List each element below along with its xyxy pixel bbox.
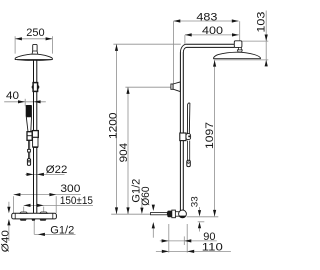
svg-text:103: 103 [256,12,268,33]
svg-text:Ø22: Ø22 [46,164,68,176]
svg-text:1097: 1097 [204,122,216,149]
svg-text:250: 250 [26,27,44,39]
svg-text:Ø40: Ø40 [0,230,11,253]
svg-text:Ø60: Ø60 [140,187,152,206]
svg-text:1200: 1200 [107,113,119,140]
svg-text:400: 400 [202,25,223,37]
svg-text:300: 300 [60,183,80,195]
svg-text:33: 33 [190,196,201,207]
svg-text:40: 40 [6,90,19,102]
svg-text:G1/2: G1/2 [50,225,74,237]
svg-text:150±15: 150±15 [60,195,93,207]
svg-text:904: 904 [118,143,130,163]
svg-text:483: 483 [196,11,217,23]
svg-text:110: 110 [202,241,223,253]
